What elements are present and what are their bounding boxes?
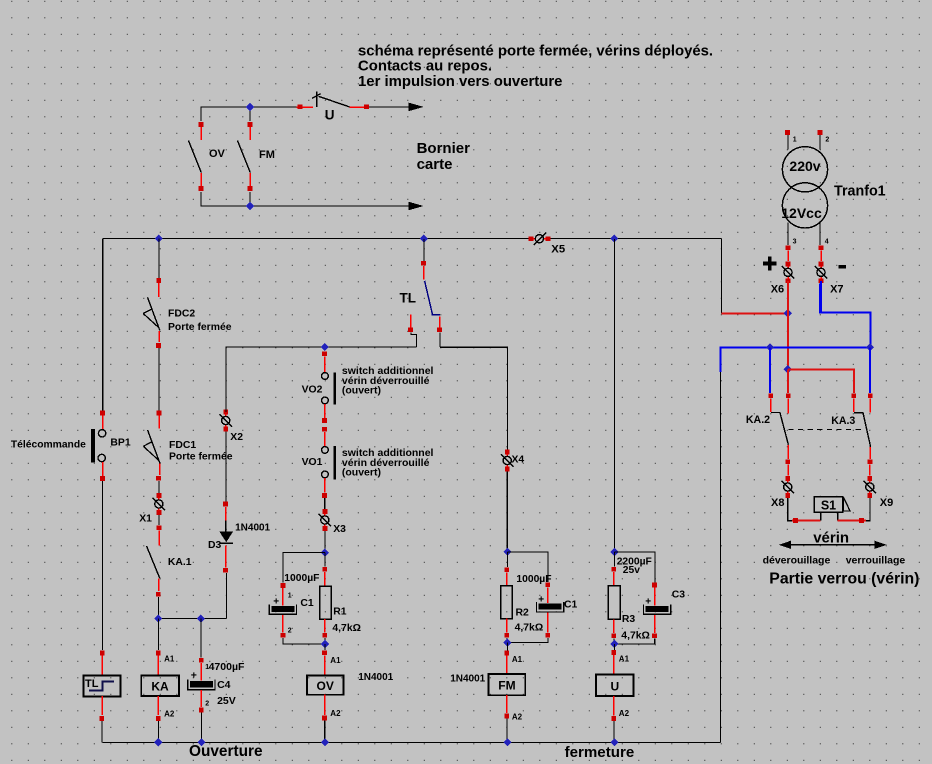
mechanical link (dashed)	[788, 429, 862, 431]
connector X2	[219, 410, 243, 443]
wire	[158, 597, 226, 619]
svg-text:(ouvert): (ouvert)	[342, 385, 381, 397]
svg-text:4700µF: 4700µF	[209, 661, 245, 673]
svg-text:VO1: VO1	[302, 457, 323, 468]
wire	[283, 553, 325, 583]
wire	[615, 552, 655, 582]
arrow deverrouillage/verrouillage	[779, 541, 887, 549]
node N	[197, 738, 205, 746]
wire	[101, 721, 103, 742]
svg-text:Ouverture: Ouverture	[189, 743, 263, 760]
wire	[157, 721, 159, 742]
wire	[324, 721, 326, 743]
wire	[324, 498, 326, 509]
wire (blue)	[769, 347, 771, 393]
svg-text:VO2: VO2	[302, 384, 323, 395]
wire	[201, 107, 297, 121]
capacitor C4	[188, 619, 245, 713]
svg-text:C4: C4	[217, 679, 231, 691]
contact FM	[238, 122, 275, 191]
svg-text:FDC2: FDC2	[168, 309, 195, 320]
svg-text:2: 2	[205, 700, 209, 707]
label fermeture	[565, 744, 635, 761]
node U	[866, 343, 874, 351]
node A (FDC2 branch)	[155, 234, 163, 242]
node E	[197, 614, 205, 622]
wire	[720, 372, 722, 742]
contact KA.1	[147, 525, 192, 596]
node J	[321, 640, 329, 648]
svg-text:1000µF: 1000µF	[516, 574, 551, 585]
label -	[839, 265, 846, 269]
svg-text:A1: A1	[330, 656, 341, 665]
node L	[610, 640, 618, 648]
wire (blue, from X7)	[820, 283, 871, 344]
resistor R2 4,7k	[501, 552, 543, 643]
wire	[613, 721, 615, 742]
svg-text:220v: 220v	[789, 158, 820, 174]
svg-text:KA.3: KA.3	[831, 415, 855, 427]
wire	[103, 741, 721, 743]
relay coil OV	[307, 644, 344, 720]
node G	[503, 548, 511, 556]
annotation: switch additionnel (VO1)	[342, 447, 434, 478]
svg-text:Porte fermée: Porte fermée	[169, 452, 233, 463]
svg-text:OV: OV	[317, 679, 334, 693]
svg-text:4,7kΩ: 4,7kΩ	[515, 623, 544, 634]
resistor R1 4,7k	[320, 553, 361, 644]
svg-text:TL: TL	[85, 678, 99, 690]
svg-text:S1: S1	[821, 498, 836, 512]
svg-text:25V: 25V	[217, 695, 236, 707]
node I	[321, 548, 329, 556]
push switch VO2	[302, 351, 337, 423]
switch S1 (verin lock)	[788, 497, 870, 523]
arrow to bornier carte (top)	[409, 103, 424, 112]
diode D3 1N4001	[208, 502, 271, 619]
svg-text:A1: A1	[164, 655, 175, 664]
svg-text:C1: C1	[300, 598, 314, 609]
svg-text:C1: C1	[564, 600, 578, 611]
wire (blue bus)	[721, 347, 871, 372]
wire	[158, 348, 160, 410]
wire	[506, 472, 508, 552]
connector X9	[864, 476, 894, 509]
svg-text:FM: FM	[259, 149, 275, 161]
svg-text:1: 1	[288, 592, 292, 599]
arrow to bornier carte (bottom)	[409, 202, 424, 211]
svg-text:verrouillage: verrouillage	[846, 555, 906, 567]
node Q	[610, 738, 618, 746]
svg-text:carte: carte	[417, 156, 453, 173]
svg-text:3: 3	[793, 238, 797, 245]
svg-text:Télécommande: Télécommande	[11, 440, 86, 451]
wire	[369, 106, 409, 108]
wire	[249, 107, 251, 206]
svg-text:1000µF: 1000µF	[284, 573, 319, 584]
wire	[158, 239, 160, 278]
svg-text:Tranfo1: Tranfo1	[834, 183, 886, 199]
switch U	[297, 92, 369, 123]
wire	[324, 531, 326, 553]
svg-text:Porte fermée: Porte fermée	[168, 322, 232, 333]
svg-text:4,7kΩ: 4,7kΩ	[621, 631, 650, 642]
svg-text:A2: A2	[512, 712, 523, 721]
wire	[102, 481, 104, 650]
node S	[784, 365, 792, 373]
wire (red +12V)	[722, 312, 788, 314]
wire (red)	[788, 369, 854, 393]
node O	[321, 738, 329, 746]
contact FDC2 (limit switch, porte fermee)	[143, 278, 232, 348]
svg-text:R1: R1	[333, 607, 347, 618]
label Telecommande	[11, 440, 86, 451]
node R	[784, 309, 792, 317]
changeover contact TL	[400, 239, 442, 347]
node K	[610, 548, 618, 556]
svg-text:1N4001: 1N4001	[450, 674, 485, 685]
svg-text:FDC1: FDC1	[169, 440, 196, 451]
push button BP1	[91, 411, 131, 481]
svg-text:KA.2: KA.2	[746, 414, 770, 426]
svg-text:OV: OV	[209, 148, 226, 160]
svg-text:A2: A2	[619, 709, 630, 718]
svg-text:X2: X2	[230, 432, 243, 443]
label verin	[813, 530, 849, 547]
svg-text:BP1: BP1	[110, 437, 130, 448]
svg-text:A1: A1	[512, 655, 523, 664]
svg-text:+: +	[191, 670, 197, 682]
svg-text:Partie verrou (vérin): Partie verrou (vérin)	[769, 570, 919, 587]
connector X8	[771, 476, 794, 509]
svg-text:KA.1: KA.1	[168, 557, 192, 568]
svg-text:D3: D3	[208, 540, 222, 551]
svg-text:Bornier: Bornier	[417, 140, 471, 157]
svg-text:12Vcc: 12Vcc	[781, 205, 822, 221]
wire	[506, 719, 508, 743]
wire	[200, 713, 202, 743]
node	[246, 202, 254, 210]
node C (U branch)	[610, 234, 618, 242]
wire	[158, 481, 160, 493]
wire (blue)	[869, 347, 871, 393]
svg-text:fermeture: fermeture	[565, 744, 635, 761]
relay coil FM	[489, 643, 526, 722]
contact KA.2	[746, 393, 791, 475]
svg-text:X8: X8	[771, 497, 784, 509]
svg-text:4: 4	[825, 238, 829, 245]
wire	[103, 238, 722, 240]
svg-text:X3: X3	[333, 524, 346, 535]
node P	[503, 738, 511, 746]
wire	[201, 192, 409, 206]
svg-text:Contacts au repos.: Contacts au repos.	[358, 59, 492, 75]
wire	[613, 239, 615, 552]
connector X6	[771, 250, 795, 313]
svg-text:A2: A2	[330, 709, 341, 718]
relay coil KA	[141, 619, 179, 721]
node	[246, 103, 254, 111]
wire	[225, 431, 227, 501]
transformer Tranfo1 (220v/12Vcc)	[781, 130, 885, 250]
svg-text:R3: R3	[622, 614, 636, 625]
svg-text:C3: C3	[672, 589, 686, 600]
svg-text:1: 1	[793, 137, 797, 144]
node B (TL branch)	[420, 234, 428, 242]
relay coil U	[596, 644, 633, 721]
annotation: switch additionnel (VO2)	[342, 365, 434, 396]
capacitor C1 (1000uF, near OV)	[269, 573, 325, 644]
label Ouverture	[189, 743, 263, 760]
svg-text:25v: 25v	[623, 565, 640, 576]
node D	[154, 614, 162, 622]
node T	[766, 343, 774, 351]
label Bornier carte	[417, 140, 471, 173]
connector X4	[501, 450, 525, 472]
wire	[158, 515, 160, 525]
svg-text:U: U	[610, 679, 619, 693]
svg-text:R2: R2	[516, 608, 530, 619]
svg-text:X9: X9	[880, 497, 893, 509]
svg-text:X4: X4	[512, 455, 525, 466]
svg-text:X7: X7	[830, 283, 843, 295]
capacitor C1 (1000uF, near FM)	[507, 574, 577, 643]
svg-text:X6: X6	[771, 283, 784, 295]
connector X1	[139, 493, 165, 524]
connector X5	[529, 232, 566, 255]
relay coil TL	[83, 651, 120, 721]
wire (red)	[787, 313, 789, 369]
svg-text:2: 2	[288, 627, 292, 634]
svg-text:2: 2	[825, 137, 829, 144]
wire	[102, 239, 104, 411]
label 1N4001 (OV coil diode)	[358, 672, 393, 683]
label 1N4001 (FM coil diode)	[450, 674, 485, 685]
resistor R3 4,7k	[608, 552, 649, 644]
svg-text:U: U	[325, 108, 335, 123]
contact KA.3	[831, 393, 872, 475]
push switch VO1	[302, 427, 337, 498]
svg-text:déverouillage: déverouillage	[763, 555, 831, 567]
wire	[226, 347, 417, 412]
contact OV	[189, 122, 226, 191]
svg-text:1N4001: 1N4001	[358, 672, 393, 683]
annotation: schema note	[358, 44, 713, 90]
svg-text:+: +	[273, 596, 279, 607]
contact FDC1 (limit switch, porte fermee)	[143, 411, 232, 481]
svg-text:KA: KA	[151, 679, 169, 693]
label verrouillage	[846, 555, 906, 567]
capacitor C3 2200uF 25v	[615, 556, 686, 644]
node F (VO2 branch)	[321, 343, 329, 351]
label Partie verrou (verin)	[769, 570, 919, 587]
svg-text:A1: A1	[619, 655, 630, 664]
connector X3	[319, 509, 347, 535]
wire	[440, 347, 508, 450]
wire	[721, 239, 723, 314]
svg-text:FM: FM	[498, 679, 515, 693]
svg-text:(ouvert): (ouvert)	[342, 467, 381, 479]
label deverouillage	[763, 555, 831, 567]
svg-text:TL: TL	[400, 291, 417, 306]
connector X7	[815, 250, 844, 312]
node H	[503, 638, 511, 646]
svg-text:X5: X5	[551, 244, 565, 256]
svg-text:4,7kΩ: 4,7kΩ	[332, 623, 361, 634]
node M	[154, 738, 162, 746]
wire	[507, 552, 547, 582]
svg-text:1er impulsion vers ouverture: 1er impulsion vers ouverture	[358, 74, 562, 90]
svg-text:schéma représenté porte fermée: schéma représenté porte fermée, vérins d…	[358, 44, 713, 60]
label +	[763, 256, 777, 270]
svg-text:1N4001: 1N4001	[235, 523, 270, 534]
svg-text:A2: A2	[164, 710, 175, 719]
svg-text:X1: X1	[139, 513, 152, 524]
